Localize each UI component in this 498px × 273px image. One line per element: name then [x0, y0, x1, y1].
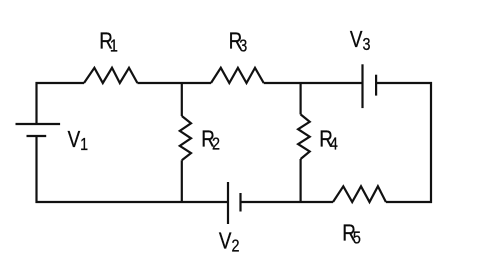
svg-text:R4: R4 [319, 127, 338, 154]
wire: bottom right segment (R5 to bottom-right corner) [386, 201, 432, 203]
wire: bottom segment V2 to R5 (through node D) [241, 201, 334, 203]
svg-text:R5: R5 [342, 221, 361, 248]
wire: R2 branch lower (R2 down to bottom wire node C) [181, 160, 183, 203]
battery V3 short plate [375, 75, 377, 96]
label V2 [219, 229, 240, 256]
wire: top segment R1 to R3 (through node A) [137, 82, 211, 84]
svg-text:V2: V2 [219, 229, 240, 256]
svg-text:R3: R3 [229, 29, 248, 56]
battery V1 short plate [27, 135, 47, 137]
resistor R4 [298, 114, 310, 159]
label V3 [350, 28, 371, 55]
battery V3 long plate [361, 64, 363, 108]
wire: top segment R3 to V3 long plate [264, 82, 363, 84]
label R1 [99, 29, 118, 56]
svg-text:V1: V1 [68, 127, 89, 154]
battery V1 long plate [16, 123, 61, 125]
wire: left vertical lower (V1 bottom plate to bottom-left corner) [35, 136, 37, 203]
label R5 [342, 221, 361, 248]
wire: R4 branch upper (node B down to R4) [300, 82, 302, 114]
resistor R1 [84, 68, 137, 83]
wire: right vertical [430, 82, 432, 203]
resistor R2 [180, 116, 191, 160]
resistor R5 [333, 186, 386, 202]
wire: left vertical upper (top-left corner to V1 top plate) [35, 82, 37, 124]
battery V2 short plate [239, 193, 241, 212]
label R2 [201, 127, 220, 154]
wire: R2 branch upper (node A down to R2) [181, 82, 183, 116]
label R3 [229, 29, 248, 56]
wire: top right segment (V3 to top-right corner) [376, 82, 432, 84]
svg-text:V3: V3 [350, 28, 371, 55]
wire: bottom left segment (corner to V2 long plate) [36, 201, 229, 203]
wire: top left segment (corner to R1) [36, 82, 85, 84]
wire: R4 branch lower (R4 down to bottom wire node D) [300, 159, 302, 203]
svg-text:R2: R2 [201, 127, 220, 154]
battery V2 long plate [227, 182, 229, 224]
label R4 [319, 127, 338, 154]
svg-text:R1: R1 [99, 29, 118, 56]
label V1 [68, 127, 89, 154]
resistor R3 [211, 68, 264, 83]
